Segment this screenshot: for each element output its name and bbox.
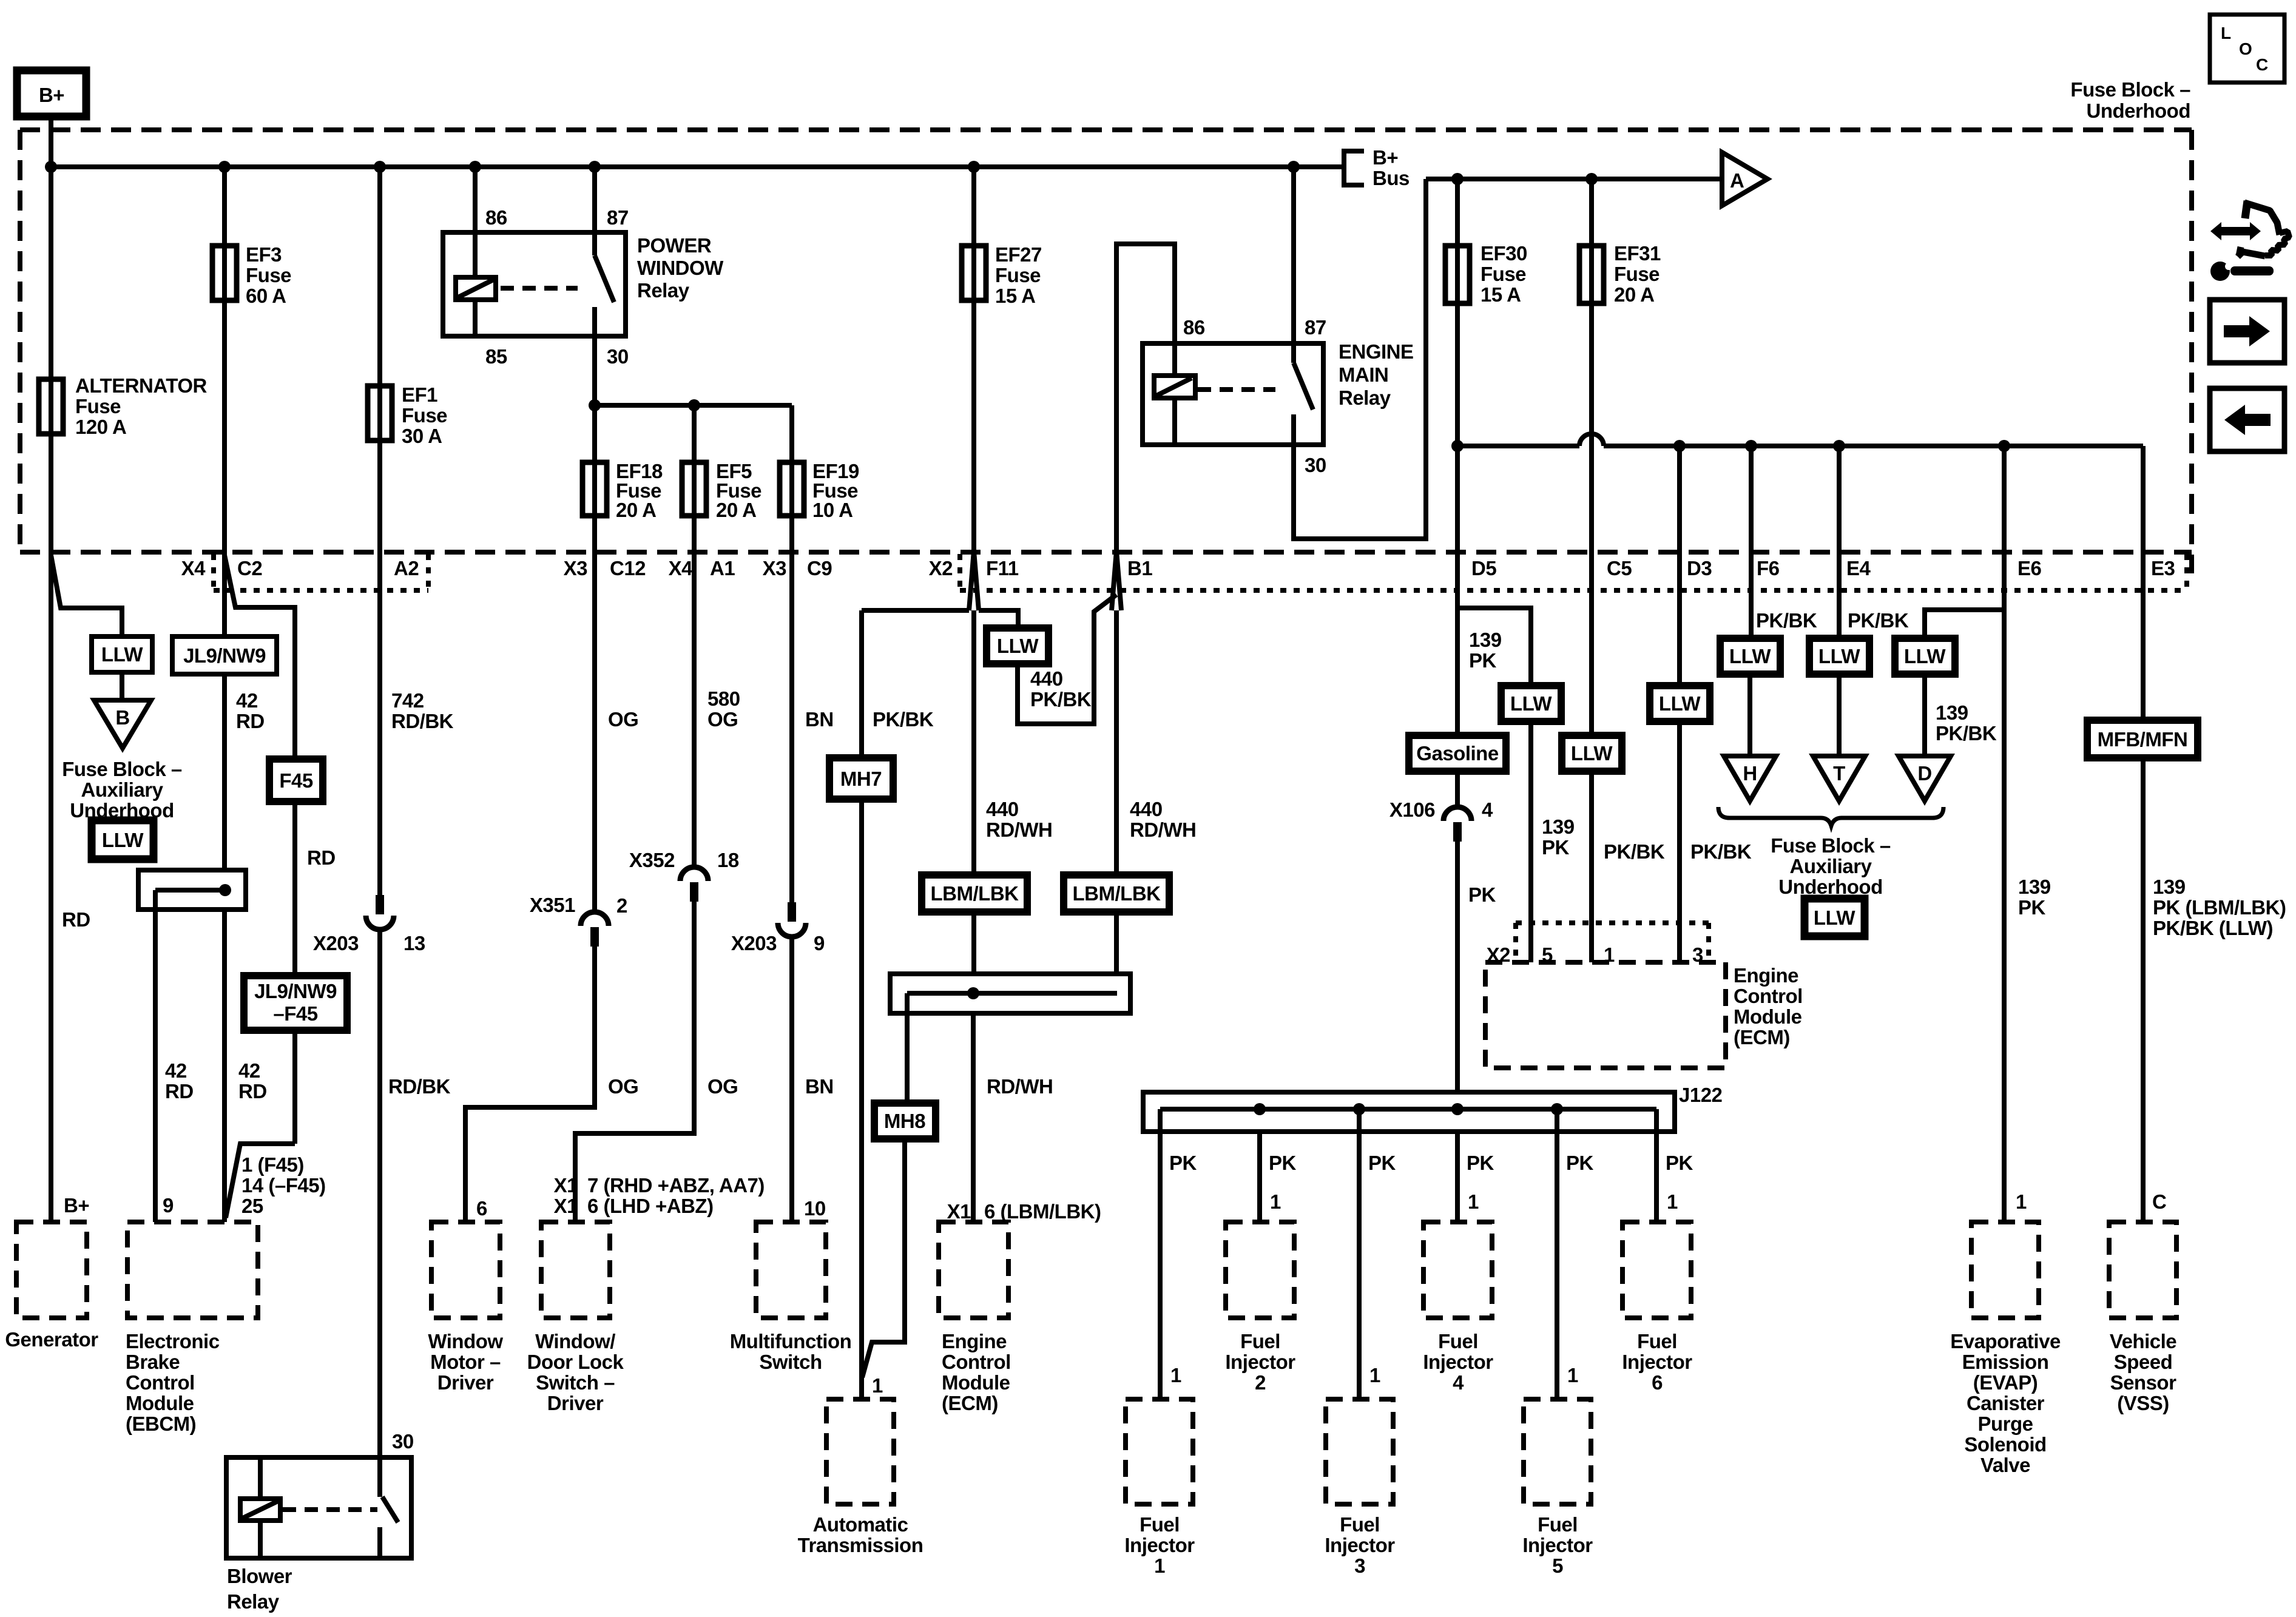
- wire code JL9/NW9: [172, 636, 277, 674]
- label 440 RD/WH F11: [986, 798, 1052, 841]
- svg-text:6: 6: [476, 1197, 487, 1220]
- wire LLW D3 to pin3: [1677, 721, 1682, 962]
- svg-text:X4: X4: [181, 557, 206, 579]
- svg-text:T: T: [1833, 762, 1845, 785]
- wire MH8 to transmission: [862, 1139, 905, 1377]
- svg-text:139: 139: [1542, 815, 1575, 838]
- labels X351 2: [530, 894, 627, 917]
- blower relay box: [226, 1457, 411, 1558]
- svg-text:LLW: LLW: [102, 829, 144, 851]
- svg-text:Injector: Injector: [1225, 1351, 1295, 1373]
- label 1 transmission pin: [872, 1374, 883, 1397]
- wire A1 down: [692, 552, 697, 867]
- connector peak B1: [1112, 551, 1121, 610]
- label PK/BK pin3: [1690, 840, 1752, 863]
- svg-text:Vehicle: Vehicle: [2110, 1330, 2176, 1352]
- svg-text:Module: Module: [1734, 1005, 1802, 1028]
- svg-text:742: 742: [391, 689, 424, 712]
- wire bus to EF27 fuse: [971, 167, 976, 552]
- main B+ bus: [45, 161, 1344, 173]
- svg-text:X3: X3: [564, 557, 588, 579]
- label 139 PK E6: [2018, 876, 2051, 919]
- branch E6 to triangle D: [1925, 610, 2004, 638]
- svg-text:(EVAP): (EVAP): [1973, 1371, 2038, 1394]
- svg-text:H: H: [1743, 762, 1757, 785]
- svg-text:30: 30: [392, 1430, 414, 1453]
- wire F11 440 RD/WH down: [971, 610, 976, 875]
- B+ Bus terminal bracket: [1344, 146, 1410, 189]
- svg-text:139: 139: [1936, 701, 1968, 724]
- svg-text:(EBCM): (EBCM): [126, 1413, 196, 1435]
- label 6 window motor pin: [476, 1197, 487, 1220]
- svg-text:Fuse: Fuse: [1481, 263, 1526, 285]
- labels X203 9: [731, 932, 825, 954]
- svg-text:30: 30: [607, 345, 629, 368]
- svg-text:Fuel: Fuel: [1538, 1513, 1578, 1536]
- svg-text:D3: D3: [1687, 557, 1712, 579]
- svg-text:OG: OG: [707, 708, 738, 731]
- svg-text:Valve: Valve: [1980, 1454, 2030, 1476]
- wire code LBM/LBK F11: [922, 875, 1027, 912]
- svg-text:Solenoid: Solenoid: [1964, 1433, 2046, 1456]
- branch X4 to aux fuse block: [51, 555, 122, 636]
- svg-text:6 (LHD +ABZ): 6 (LHD +ABZ): [587, 1195, 714, 1217]
- svg-text:LLW: LLW: [1571, 742, 1613, 765]
- label J122: [1679, 1084, 1723, 1106]
- svg-text:PK: PK: [1566, 1152, 1594, 1174]
- svg-text:RD: RD: [238, 1080, 267, 1102]
- fuse EF19 10A: [780, 460, 859, 521]
- svg-text:15 A: 15 A: [1481, 283, 1521, 306]
- fuse EF30 15A: [1445, 179, 1527, 552]
- label PK/BK E4: [1848, 609, 1909, 632]
- label Evaporative Emission EVAP Canister Purge Solenoid Valve: [1950, 1330, 2061, 1476]
- labels 85 30 power window: [485, 345, 629, 368]
- svg-text:Relay: Relay: [227, 1590, 280, 1613]
- svg-text:PK: PK: [1542, 836, 1570, 859]
- svg-text:MH8: MH8: [884, 1110, 925, 1132]
- svg-text:PK: PK: [1169, 1152, 1197, 1174]
- labels 86 87 engine main: [1183, 316, 1326, 339]
- wire code LLW C5: [1562, 735, 1622, 771]
- blower relay coil: [240, 1457, 280, 1558]
- wire code LLW D5 branch: [1501, 686, 1561, 721]
- svg-text:Module: Module: [942, 1371, 1010, 1394]
- svg-text:Auxiliary: Auxiliary: [81, 778, 164, 801]
- svg-text:PK/BK (LLW): PK/BK (LLW): [2153, 917, 2273, 939]
- inline connector X106 pin 4: [1443, 807, 1471, 842]
- fuel injector 3 dashed box: [1326, 1399, 1393, 1504]
- svg-text:Fuel: Fuel: [1637, 1330, 1677, 1352]
- wire F6 down: [1749, 446, 1754, 638]
- svg-text:Fuse Block –: Fuse Block –: [2070, 78, 2190, 101]
- svg-text:OG: OG: [608, 1075, 638, 1098]
- svg-text:LLW: LLW: [1814, 906, 1855, 929]
- svg-text:(ECM): (ECM): [1734, 1026, 1790, 1048]
- wire code LLW aux bottom thick: [92, 820, 154, 859]
- svg-text:Automatic: Automatic: [813, 1513, 908, 1536]
- label 139 PK/BK E6 branch: [1936, 701, 1997, 744]
- svg-text:6: 6: [1652, 1371, 1663, 1394]
- svg-text:7 (RHD +ABZ, AA7): 7 (RHD +ABZ, AA7): [587, 1174, 765, 1197]
- svg-text:RD: RD: [62, 908, 90, 931]
- svg-text:BN: BN: [805, 708, 834, 731]
- arrow left legend box: [2210, 388, 2284, 451]
- connector pin labels row: [181, 557, 2175, 579]
- svg-text:6 (LBM/LBK): 6 (LBM/LBK): [984, 1200, 1101, 1223]
- svg-text:OG: OG: [608, 708, 638, 731]
- wire B+ to bus: [49, 113, 53, 167]
- svg-text:C2: C2: [237, 557, 262, 579]
- svg-text:E4: E4: [1846, 557, 1871, 579]
- label Automatic Transmission: [798, 1513, 923, 1556]
- automatic transmission dashed box: [826, 1399, 894, 1504]
- svg-text:Switch: Switch: [759, 1351, 822, 1373]
- svg-text:C: C: [2256, 55, 2268, 74]
- svg-text:Injector: Injector: [1124, 1534, 1195, 1556]
- labels X1 7 RHD X1 6 LHD: [554, 1174, 765, 1217]
- EBCM dashed box: [127, 1222, 258, 1318]
- wire C2 down through JL9/NW9: [222, 552, 227, 870]
- connector group dotted box X2-E3: [960, 554, 2187, 590]
- svg-text:Fuse: Fuse: [402, 404, 447, 427]
- labels 1 lower injector pins: [1170, 1364, 1578, 1386]
- svg-text:OG: OG: [707, 1075, 738, 1098]
- fuse EF1 30A: [368, 383, 447, 447]
- svg-text:18: 18: [717, 849, 739, 871]
- svg-text:PK (LBM/LBK): PK (LBM/LBK): [2153, 896, 2286, 919]
- label Fuel Injector 1: [1124, 1513, 1195, 1577]
- svg-text:25: 25: [241, 1195, 263, 1217]
- svg-text:Control: Control: [1734, 985, 1803, 1007]
- svg-text:C9: C9: [807, 557, 832, 579]
- svg-text:86: 86: [485, 206, 507, 229]
- window motor dashed box: [431, 1222, 500, 1318]
- svg-text:(ECM): (ECM): [942, 1392, 998, 1414]
- label Electronic Brake Control Module EBCM: [126, 1330, 220, 1435]
- svg-text:LLW: LLW: [1818, 645, 1860, 667]
- svg-text:1: 1: [1154, 1555, 1165, 1577]
- svg-text:RD: RD: [236, 710, 265, 732]
- svg-text:JL9/NW9: JL9/NW9: [254, 980, 337, 1002]
- svg-text:LLW: LLW: [1729, 645, 1771, 667]
- generator dashed box: [16, 1222, 87, 1318]
- svg-text:LLW: LLW: [1510, 692, 1552, 715]
- svg-text:Control: Control: [942, 1351, 1011, 1373]
- label Fuel Injector 4: [1423, 1330, 1493, 1394]
- svg-text:B+: B+: [1373, 146, 1398, 169]
- svg-text:Motor –: Motor –: [430, 1351, 501, 1373]
- svg-text:D5: D5: [1471, 557, 1496, 579]
- svg-text:1: 1: [1170, 1364, 1181, 1386]
- svg-text:EF30: EF30: [1481, 242, 1527, 265]
- wire bus to relay 87: [592, 167, 597, 232]
- second B+ bus to arrow A: [1426, 173, 1722, 185]
- svg-text:JL9/NW9: JL9/NW9: [183, 644, 266, 667]
- label Window Motor Driver: [428, 1330, 503, 1394]
- labels 1 F45 14 -F45 25: [241, 1153, 326, 1217]
- triangle B aux fuse block: [94, 700, 151, 748]
- wire bus to relay 86: [473, 167, 478, 232]
- svg-text:1: 1: [1270, 1190, 1281, 1213]
- svg-text:440: 440: [1030, 667, 1063, 690]
- VSS dashed box: [2109, 1222, 2176, 1318]
- label 30 engine main: [1305, 454, 1326, 476]
- svg-text:4: 4: [1453, 1371, 1464, 1394]
- fuel injector 6 dashed box: [1622, 1222, 1691, 1318]
- svg-text:X1: X1: [554, 1174, 578, 1197]
- splice pack J122: [1143, 1092, 1675, 1399]
- svg-text:10 A: 10 A: [812, 499, 853, 521]
- label C VSS pin: [2152, 1190, 2166, 1213]
- label 440 PK/BK loop: [1030, 667, 1092, 711]
- svg-text:3: 3: [1354, 1555, 1365, 1577]
- svg-text:F11: F11: [986, 557, 1019, 579]
- svg-text:Blower: Blower: [227, 1565, 292, 1587]
- svg-text:Evaporative: Evaporative: [1950, 1330, 2061, 1352]
- fuse block - underhood dashed border: [20, 130, 2192, 573]
- svg-text:5: 5: [1552, 1555, 1563, 1577]
- svg-text:E6: E6: [2017, 557, 2042, 579]
- svg-text:X203: X203: [731, 932, 777, 954]
- blower relay switch: [380, 1457, 398, 1558]
- wire code MH7: [829, 758, 893, 799]
- svg-text:139: 139: [1469, 629, 1502, 651]
- fuse EF31 20A: [1579, 179, 1661, 552]
- fuse EF5 20A: [682, 460, 761, 521]
- multifunction switch dashed box: [756, 1222, 826, 1318]
- label Engine Control Module ECM right: [1734, 964, 1803, 1048]
- label POWER WINDOW Relay: [637, 234, 724, 302]
- wire E3 down: [2141, 446, 2146, 1222]
- label PK/BK F6: [1756, 609, 1817, 632]
- svg-text:MH7: MH7: [840, 768, 882, 790]
- wire code LLW E6 branch: [1895, 638, 1955, 674]
- label 42 RD C2 upper: [236, 689, 265, 732]
- svg-text:PK/BK: PK/BK: [1848, 609, 1909, 632]
- svg-text:Bus: Bus: [1373, 167, 1410, 189]
- svg-text:Speed: Speed: [2114, 1351, 2173, 1373]
- svg-text:RD/WH: RD/WH: [1130, 819, 1196, 841]
- svg-text:Auxiliary: Auxiliary: [1790, 855, 1872, 877]
- label ENGINE MAIN Relay: [1339, 340, 1414, 409]
- power window relay coil: [456, 232, 496, 336]
- branch D5 to ECM pin 5: [1457, 608, 1531, 685]
- off-page arrow A: [1722, 152, 1768, 206]
- svg-text:15 A: 15 A: [995, 285, 1035, 307]
- engine main relay dashed link: [1198, 387, 1275, 392]
- label Fuse Block Auxiliary Underhood right: [1771, 834, 1891, 898]
- labels 86 87 power window: [485, 206, 629, 229]
- svg-text:20 A: 20 A: [716, 499, 756, 521]
- svg-text:ENGINE: ENGINE: [1339, 340, 1414, 363]
- label BN C9 upper: [805, 708, 834, 731]
- fuse EF27 15A: [962, 243, 1042, 307]
- svg-text:LBM/LBK: LBM/LBK: [931, 882, 1019, 905]
- svg-text:Canister: Canister: [1967, 1392, 2045, 1414]
- label BN C9 lower: [805, 1075, 834, 1098]
- svg-text:RD: RD: [307, 846, 336, 869]
- svg-text:Fuel: Fuel: [1438, 1330, 1478, 1352]
- svg-text:440: 440: [1130, 798, 1163, 820]
- fuse box F45: [269, 759, 323, 802]
- inline connector X352 pin 18: [680, 867, 708, 902]
- svg-text:1: 1: [1468, 1190, 1479, 1213]
- wire D5 down to gasoline: [1455, 552, 1460, 807]
- wire LBM/LBK to splice: [971, 912, 976, 974]
- triangle H: [1724, 756, 1776, 801]
- svg-text:Fuse Block –: Fuse Block –: [1771, 834, 1891, 857]
- svg-text:1: 1: [1369, 1364, 1380, 1386]
- label Multifunction Switch: [730, 1330, 852, 1373]
- label PK D5 lower: [1468, 883, 1496, 906]
- svg-text:120 A: 120 A: [75, 416, 126, 438]
- svg-text:Engine: Engine: [1734, 964, 1798, 987]
- wire E4 down: [1837, 446, 1842, 638]
- svg-text:87: 87: [1305, 316, 1326, 339]
- svg-text:PK/BK: PK/BK: [1936, 722, 1997, 744]
- wire LLW to triangle D: [1922, 674, 1927, 756]
- fuel injector 5 dashed box: [1524, 1399, 1591, 1504]
- wire X351 to window motor: [465, 947, 595, 1222]
- svg-text:B: B: [115, 706, 129, 729]
- svg-text:Switch –: Switch –: [536, 1371, 615, 1394]
- svg-text:LBM/LBK: LBM/LBK: [1073, 882, 1161, 905]
- svg-text:Fuel: Fuel: [1340, 1513, 1380, 1536]
- svg-text:RD/BK: RD/BK: [388, 1075, 451, 1098]
- wire engine relay 86 to B1: [1116, 244, 1175, 552]
- triangle D: [1899, 756, 1951, 801]
- splice pack EBCM: [138, 870, 246, 1222]
- branch F11 to LLW loop: [979, 610, 1018, 628]
- label 42 RD lower left: [165, 1059, 194, 1102]
- svg-text:Relay: Relay: [637, 279, 690, 302]
- wire X203 to multifunction switch: [789, 937, 794, 1222]
- svg-text:Driver: Driver: [437, 1371, 494, 1394]
- label 1 EVAP pin: [2016, 1190, 2027, 1213]
- svg-text:PK/BK: PK/BK: [873, 708, 934, 731]
- svg-text:POWER: POWER: [637, 234, 712, 257]
- svg-text:O: O: [2239, 39, 2252, 58]
- label 139 PK D5: [1469, 629, 1502, 672]
- label Blower Relay: [227, 1565, 292, 1613]
- label RD/BK lower: [388, 1075, 451, 1098]
- svg-text:X1: X1: [947, 1200, 971, 1223]
- power window relay box: [443, 232, 626, 336]
- svg-text:1: 1: [2016, 1190, 2027, 1213]
- svg-text:Underhood: Underhood: [2087, 100, 2190, 122]
- feeder bar from EF30: [1451, 434, 2143, 452]
- wire 42 RD to EBCM pin 25: [222, 910, 227, 1222]
- svg-text:PK/BK: PK/BK: [1030, 688, 1092, 711]
- wire bus junction down to engine relay 87: [1291, 167, 1296, 343]
- svg-text:440: 440: [986, 798, 1019, 820]
- svg-text:Window/: Window/: [535, 1330, 615, 1352]
- svg-text:85: 85: [485, 345, 507, 368]
- loop wire LLW to B1: [1018, 595, 1116, 724]
- brace fuse block auxiliary underhood: [1718, 807, 1943, 826]
- svg-text:PK/BK: PK/BK: [1756, 609, 1817, 632]
- label RD/WH ECM wire: [987, 1075, 1053, 1098]
- wire E6 down: [2002, 446, 2007, 1222]
- fuse EF18 20A: [582, 405, 663, 552]
- connector peak F11: [969, 551, 979, 610]
- wire C5 down: [1589, 552, 1594, 735]
- wire code MH8: [874, 1103, 936, 1139]
- labels X106 4: [1389, 798, 1493, 821]
- engine main relay switch: [1294, 343, 1313, 445]
- engine main relay box: [1143, 343, 1323, 445]
- wire F45 down: [292, 802, 297, 1144]
- label 10 multifunction pin: [804, 1197, 826, 1220]
- wire F11 PK/BK down MH7: [859, 610, 864, 1399]
- ECM X2 dotted connector box: [1516, 923, 1709, 962]
- wire F45 joins EBCM pin: [226, 1144, 295, 1218]
- EVAP dashed box: [1971, 1222, 2039, 1318]
- svg-text:X2: X2: [929, 557, 953, 579]
- svg-text:20 A: 20 A: [616, 499, 656, 521]
- svg-text:2: 2: [616, 894, 627, 917]
- svg-text:Control: Control: [126, 1371, 195, 1394]
- wire X352 to window door lock switch: [575, 902, 694, 1222]
- fuse group junction bar: [589, 399, 792, 552]
- svg-text:PK: PK: [1368, 1152, 1396, 1174]
- svg-text:E3: E3: [2151, 557, 2175, 579]
- wire code Gasoline: [1409, 735, 1506, 771]
- wire code LLW aux right thick: [1805, 899, 1865, 936]
- wire LLW E4 to triangle T: [1837, 674, 1842, 756]
- power window relay switch: [595, 232, 614, 336]
- svg-text:X351: X351: [530, 894, 575, 916]
- wire relay 30 down to fuse group: [592, 336, 597, 405]
- wire code LBM/LBK B1: [1064, 875, 1169, 912]
- svg-text:87: 87: [607, 206, 629, 229]
- svg-text:42: 42: [238, 1059, 260, 1082]
- svg-text:MAIN: MAIN: [1339, 363, 1388, 386]
- wire code JL9/NW9-F45: [244, 976, 347, 1030]
- wire LLW F6 to triangle H: [1747, 674, 1752, 756]
- triangle T: [1813, 756, 1865, 801]
- wire code LLW E4: [1809, 638, 1869, 674]
- B+ terminal box: [17, 70, 86, 116]
- svg-text:EF27: EF27: [995, 243, 1042, 266]
- wire LLW to triangle B: [120, 672, 124, 700]
- svg-text:Driver: Driver: [547, 1392, 604, 1414]
- svg-text:Transmission: Transmission: [798, 1534, 923, 1556]
- engine control module dashed box: [1485, 962, 1726, 1068]
- svg-text:2: 2: [1255, 1371, 1266, 1394]
- label 139 PK pin5: [1542, 815, 1575, 859]
- svg-text:4: 4: [1482, 798, 1493, 821]
- inline connector X203 pin 13: [366, 895, 394, 930]
- svg-text:30: 30: [1305, 454, 1326, 476]
- wire code MFB/MFN: [2087, 720, 2198, 758]
- svg-text:42: 42: [165, 1059, 187, 1082]
- svg-text:13: 13: [403, 932, 425, 954]
- svg-text:PK: PK: [1269, 1152, 1297, 1174]
- arrow right legend box: [2210, 300, 2284, 363]
- svg-text:Injector: Injector: [1423, 1351, 1493, 1373]
- fuse ALTERNATOR 120A: [39, 374, 207, 438]
- svg-text:RD/BK: RD/BK: [391, 710, 454, 732]
- svg-text:C12: C12: [610, 557, 646, 579]
- svg-text:60 A: 60 A: [246, 285, 286, 307]
- service vehicle icon: [2210, 201, 2289, 281]
- svg-text:ALTERNATOR: ALTERNATOR: [75, 374, 207, 397]
- svg-text:86: 86: [1183, 316, 1205, 339]
- svg-text:14 (–F45): 14 (–F45): [241, 1174, 326, 1197]
- svg-text:RD/WH: RD/WH: [986, 819, 1052, 841]
